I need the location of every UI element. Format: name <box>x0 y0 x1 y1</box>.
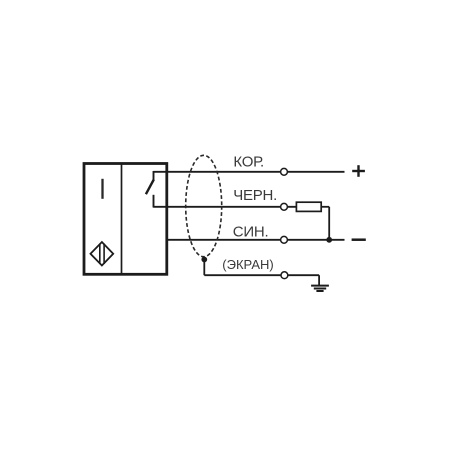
svg-text:КОР.: КОР. <box>233 154 264 171</box>
inductive sensor symbol (diamond with sensing bar) <box>91 242 114 266</box>
shield junction node <box>201 257 207 263</box>
minus supply terminal <box>352 238 366 241</box>
terminal circle: shield wire <box>281 272 288 279</box>
wire: resistor to minus rail <box>321 207 329 240</box>
wire: shield drop <box>203 260 205 276</box>
wire: brown (KOR.) from switch to + <box>153 171 344 173</box>
switch contact (output stage) <box>146 171 154 208</box>
sensor body outline <box>84 164 167 275</box>
wire: shield (EKRAN) to ground <box>204 275 319 285</box>
terminal circle: black wire <box>281 203 288 210</box>
plus supply terminal <box>352 165 365 177</box>
label KOR. (brown) <box>233 154 264 171</box>
label CHERN. (black) <box>233 187 277 204</box>
junction dot on minus rail <box>326 237 332 243</box>
indicator mark I <box>101 179 103 199</box>
svg-text:(ЭКРАН): (ЭКРАН) <box>222 257 273 272</box>
svg-text:ЧЕРН.: ЧЕРН. <box>233 187 277 204</box>
wire: black (CHERN.) from switch to load <box>153 206 296 208</box>
ground symbol <box>311 286 329 291</box>
resistor (load) on black wire <box>296 202 321 211</box>
terminal circle: brown wire <box>281 168 288 175</box>
label (EKRAN) shield <box>222 257 273 272</box>
label SIN. (blue) <box>233 224 269 241</box>
terminal circle: blue wire <box>281 236 288 243</box>
wire: blue (SIN.) from sensor body to - <box>166 239 345 241</box>
cable screen ellipse (dashed) <box>186 155 222 256</box>
svg-text:СИН.: СИН. <box>233 224 269 241</box>
sensor internal divider <box>121 164 123 275</box>
